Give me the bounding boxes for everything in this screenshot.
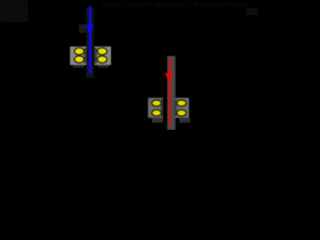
wire dark patch left of arrowhead [79, 24, 86, 33]
coil L2 turn 1 [152, 100, 161, 106]
arrow B1 blue line [89, 6, 92, 74]
coil L2 left box foot [152, 118, 163, 123]
coil L1 left box inner shade [84, 48, 87, 64]
arrow B1 blue head [86, 25, 94, 36]
coil L1 right box foot [98, 65, 109, 68]
coil L1 left box [70, 47, 87, 66]
wire dark band behind blue arrow [86, 8, 94, 78]
coil L1 turn 3 [97, 48, 107, 55]
coil L2 left box inner shade [161, 99, 163, 117]
coil L1 left box foot [73, 65, 84, 68]
coil L1 right box [95, 47, 112, 66]
coil L1 turn 1 [74, 48, 84, 55]
node left-structure [70, 6, 111, 78]
arrow I2 red line [169, 59, 171, 125]
arrow I2 red head [165, 73, 173, 84]
svg-text:primary coil and secondary coi: primary coil and secondary coil inductio… [102, 2, 248, 9]
coil L2 right box [175, 98, 190, 118]
core rod gray [167, 56, 175, 130]
coil L1 right box inner shade [95, 48, 98, 64]
coil L2 left box [148, 98, 163, 118]
faint panel top-left [0, 0, 28, 22]
coil L2 right box inner shade [175, 99, 177, 117]
node right-structure [148, 56, 190, 130]
coil L2 right box foot [180, 118, 191, 123]
coil L1 turn 2 [74, 56, 84, 63]
coil L2 turn 2 [152, 110, 161, 116]
coil L2 turn 4 [177, 110, 186, 116]
faint mark top-right [246, 8, 258, 15]
coil L2 turn 3 [177, 100, 186, 106]
coil L1 turn 4 [97, 56, 107, 63]
